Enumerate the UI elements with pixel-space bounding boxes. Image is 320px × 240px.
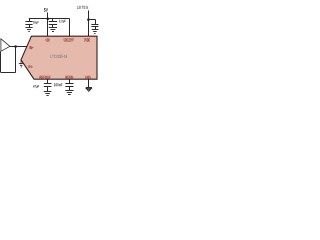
ground C3 xyxy=(92,30,99,34)
wire amp output to IN+ xyxy=(10,46,27,48)
pin IN- xyxy=(29,65,33,68)
label 10uF xyxy=(33,21,39,24)
ground C1 xyxy=(25,28,32,32)
wire feedback left vertical xyxy=(0,52,2,73)
node junction 5V xyxy=(47,17,50,20)
node junction OVDD xyxy=(87,18,90,21)
wire GND pin xyxy=(88,79,90,87)
wire REFBUF pin xyxy=(47,79,49,83)
label 100nF xyxy=(54,83,62,86)
node 1.8V TO 5V label xyxy=(77,6,88,9)
node feedback junction xyxy=(14,45,17,48)
wire feedback bottom xyxy=(1,72,16,74)
wire VDDLBYP vertical xyxy=(69,19,71,37)
wire 5V horizontal rail xyxy=(29,18,70,20)
IC U2 LTC2335-16 body xyxy=(21,36,97,79)
pin VDD xyxy=(45,39,49,42)
pin REFIN xyxy=(66,76,74,79)
wire OVDD vertical xyxy=(88,10,90,36)
capacitor C2 2.2uF xyxy=(49,19,57,28)
op-amp U1 xyxy=(1,39,10,52)
capacitor C4 47uF xyxy=(44,84,52,92)
label 2.2uF xyxy=(59,20,66,23)
pin REFBUF xyxy=(40,76,51,79)
wire 5V vertical to VDD pin xyxy=(47,13,49,37)
pin OVDD xyxy=(84,38,90,41)
label 47uF xyxy=(33,85,39,88)
pin VDDLBYP xyxy=(64,38,74,41)
capacitor C3 xyxy=(91,20,98,30)
ground C2 xyxy=(49,28,57,32)
ground C5 xyxy=(65,91,73,95)
label LTC2335-16 xyxy=(50,55,67,58)
ground IN- pin xyxy=(19,60,24,67)
pin GND xyxy=(85,76,91,79)
ground C4 xyxy=(44,92,52,96)
capacitor C1 10uF xyxy=(25,19,32,28)
ground chassis GND pin xyxy=(86,88,92,92)
wire feedback right vertical xyxy=(15,47,17,73)
node 5V label xyxy=(44,8,48,12)
wire OVDD cap branch xyxy=(88,19,95,21)
pin IN+ xyxy=(29,46,33,49)
capacitor C5 100nF xyxy=(65,84,73,91)
wire REFIN pin xyxy=(69,79,71,83)
